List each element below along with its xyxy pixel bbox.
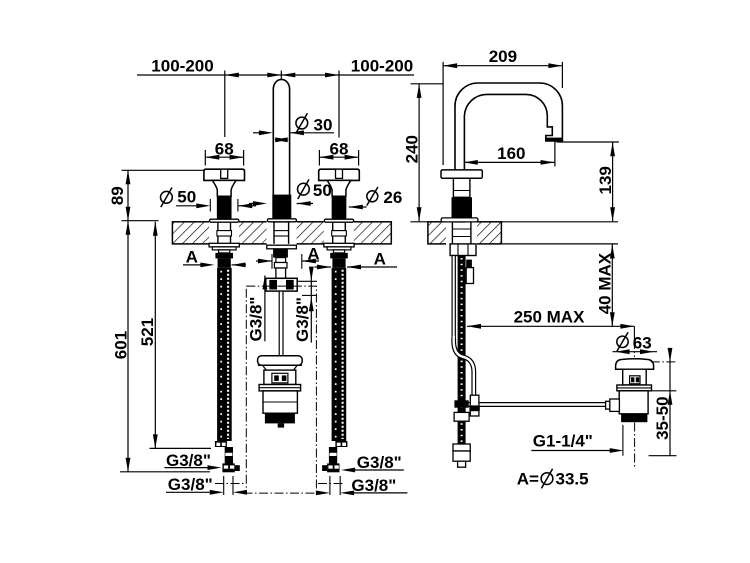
- svg-text:601: 601: [112, 331, 131, 359]
- svg-text:209: 209: [489, 47, 517, 66]
- svg-text:G3/8": G3/8": [247, 297, 266, 342]
- svg-text:250 MAX: 250 MAX: [514, 308, 586, 327]
- svg-text:G3/8": G3/8": [357, 453, 402, 472]
- svg-text:100-200: 100-200: [351, 57, 413, 76]
- svg-text:26: 26: [383, 188, 402, 207]
- svg-text:240: 240: [403, 135, 422, 163]
- svg-text:521: 521: [138, 318, 157, 346]
- svg-text:160: 160: [497, 144, 525, 163]
- svg-text:G3/8": G3/8": [293, 297, 312, 342]
- svg-text:A=: A=: [517, 470, 539, 489]
- svg-text:89: 89: [108, 186, 127, 205]
- svg-text:63: 63: [633, 333, 652, 352]
- svg-text:68: 68: [330, 139, 349, 158]
- svg-text:G1-1/4": G1-1/4": [533, 431, 593, 450]
- svg-text:40 MAX: 40 MAX: [596, 252, 615, 314]
- svg-text:35-50: 35-50: [653, 396, 672, 439]
- svg-text:33.5: 33.5: [556, 470, 589, 489]
- svg-text:139: 139: [596, 166, 615, 194]
- svg-text:A: A: [374, 250, 386, 269]
- svg-text:50: 50: [177, 187, 196, 206]
- svg-text:G3/8": G3/8": [168, 475, 213, 494]
- svg-text:A: A: [186, 248, 198, 267]
- svg-text:100-200: 100-200: [151, 57, 213, 76]
- svg-text:50: 50: [313, 181, 332, 200]
- svg-text:30: 30: [314, 115, 333, 134]
- svg-text:G3/8": G3/8": [351, 476, 396, 495]
- svg-text:68: 68: [215, 139, 234, 158]
